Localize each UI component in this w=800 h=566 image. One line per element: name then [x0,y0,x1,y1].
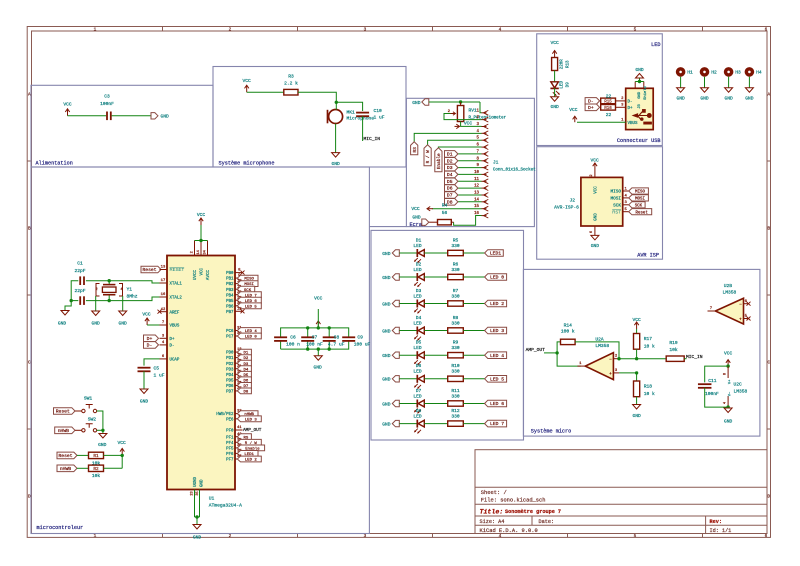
svg-text:22pF: 22pF [74,288,85,294]
svg-text:VBUS: VBUS [628,122,639,126]
svg-text:PB6: PB6 [226,305,234,309]
mcu pin 33 HWB/PE2 [235,413,243,415]
J1 pin 2 [482,119,487,121]
svg-text:Sheet: /: Sheet: / [481,490,507,496]
svg-text:R1: R1 [93,454,99,459]
global label D1 (mcu) [237,349,251,355]
svg-text:U1: U1 [209,496,215,502]
svg-text:J3: J3 [638,104,642,109]
usb shield pins [634,82,636,89]
wire [424,303,447,305]
svg-text:LED 5: LED 5 [490,376,504,382]
svg-text:C8: C8 [334,335,340,341]
svg-text:10 k: 10 k [644,391,655,397]
svg-text:PF7: PF7 [226,459,234,463]
svg-text:MOSI: MOSI [635,198,645,202]
LED D9 [551,82,559,88]
wire ucap [144,359,160,366]
svg-text:VCC: VCC [595,186,599,194]
resistor R7 330 [448,301,464,306]
svg-text:Conn_01x16_Socket: Conn_01x16_Socket [493,167,536,172]
power GND (usb led) [551,97,559,102]
svg-text:35: 35 [196,491,200,495]
svg-text:AREF: AREF [170,311,180,315]
svg-text:VCC: VCC [243,78,252,84]
junction [121,454,124,457]
svg-text:H2: H2 [711,70,717,76]
global label D- (mcu) [144,342,159,349]
power VCC (ecran pin15) [427,208,433,210]
hier label GND (alimentation) [151,113,158,119]
svg-text:100 uF: 100 uF [354,341,371,347]
global label D+ (mcu) [144,335,159,342]
wire [335,124,337,153]
wire [399,276,417,278]
svg-text:LED 3: LED 3 [490,328,504,334]
svg-text:Date:: Date: [539,519,555,525]
resistor R18 10k [636,373,638,381]
svg-text:C: C [767,361,770,366]
sheet Ecran [369,98,534,226]
power GND (r18) [633,405,641,410]
sheet LED array box [371,230,524,440]
wire [728,77,730,88]
svg-text:LED: LED [413,320,422,326]
svg-text:GND: GND [382,401,391,407]
svg-text:−: − [739,302,742,307]
global label nHWB (r2) [57,465,77,472]
svg-text:Système microphone: Système microphone [219,160,275,166]
svg-text:U2C: U2C [734,382,743,388]
wire [97,411,103,430]
LED D2 [416,273,418,281]
wire [463,252,484,254]
svg-text:PE6: PE6 [226,418,234,422]
svg-text:2.2 k: 2.2 k [284,81,298,87]
global label nHWB (mcu) [237,411,258,417]
junction [726,405,729,408]
svg-text:14: 14 [197,250,201,254]
capacitor C7 100nF [307,328,309,337]
mcu pin 41 PF0 [235,429,243,431]
svg-text:D8: D8 [416,408,422,414]
svg-text:MK1: MK1 [347,109,356,115]
power GND (crystal case 1) [92,311,100,316]
svg-text:GND: GND [331,161,340,167]
svg-text:D-: D- [147,343,153,349]
J2 pin 4 MOSI [623,197,629,199]
global label LED 6 [485,400,507,407]
J1 pin 3 [482,126,487,128]
svg-text:UCAP: UCAP [170,359,180,363]
power VCC (alimentation) [67,109,69,116]
svg-text:C11: C11 [708,378,717,384]
LED D7 [416,400,418,408]
wire [424,403,447,405]
wire [429,101,480,103]
svg-text:C1: C1 [77,261,83,267]
svg-text:PF6: PF6 [226,453,234,457]
J2 pin 3 SCK [623,204,629,206]
global label D- (usb) [585,98,600,105]
svg-text:C9: C9 [357,335,363,341]
mcu pin 13 RESET [160,269,168,271]
svg-text:D+: D+ [628,107,634,111]
wire [336,102,362,111]
wire [704,77,706,88]
svg-text:GND: GND [382,251,391,257]
global label D6 (mcu) [237,377,251,383]
op-amp U2A [585,353,613,380]
svg-text:Reset: Reset [56,409,70,415]
mcu pin 18 PD0 [235,351,243,353]
op-amp U2B [715,298,743,324]
resistor R4 56 [438,220,452,225]
svg-text:10k: 10k [92,473,101,479]
wire [680,77,682,88]
svg-text:Système micro: Système micro [531,428,571,434]
svg-text:PD2: PD2 [226,363,234,367]
svg-text:C10: C10 [374,108,383,114]
svg-text:SW2: SW2 [88,416,97,422]
svg-text:AMP_OUT: AMP_OUT [526,347,546,353]
wire [399,303,417,305]
wire [619,358,666,360]
wire (caps right to crystal) [86,280,109,282]
svg-text:Reset: Reset [142,267,156,273]
svg-text:D: D [767,495,770,500]
wire [362,116,364,141]
global label LED 5 (mcu) [237,303,261,309]
svg-text:VCC: VCC [724,351,733,357]
svg-text:2: 2 [190,251,194,253]
svg-text:GND: GND [632,413,641,419]
svg-text:D3: D3 [447,165,453,171]
mcu top power pins [194,241,196,256]
svg-text:D4: D4 [416,315,422,321]
mcu pin 36 PF7 [235,458,243,460]
bypass rail top wire [280,341,282,349]
svg-text:Enable: Enable [437,153,442,169]
svg-text:D6: D6 [447,186,453,192]
junction [108,279,111,282]
global label D4 (ecran) [458,173,482,175]
J1 pin 10 [482,173,487,175]
wire [399,423,417,425]
svg-text:U2A: U2A [595,336,604,342]
global label MOSI (mcu) [237,281,258,287]
svg-text:MOSI: MOSI [610,197,621,202]
usb connector J3 body [626,88,654,129]
svg-text:VCC: VCC [632,317,641,323]
svg-text:D+: D+ [147,336,153,342]
resistor R10 330 [448,376,464,381]
wire [121,455,123,468]
sheet Connecteur USB / LED [537,34,663,146]
global label LED 5 [485,376,507,383]
svg-text:GND: GND [550,104,559,110]
wire [544,352,557,354]
power GND (H4) [745,88,753,93]
global label Reset (avr isp) [629,209,652,215]
svg-text:10 k: 10 k [644,344,655,350]
svg-text:LED 2: LED 2 [245,459,258,463]
svg-text:R / W: R / W [426,150,431,164]
junction [101,429,104,432]
svg-text:R16: R16 [604,107,612,111]
global label D5 (ecran) [458,180,482,182]
svg-text:VCC: VCC [411,206,420,212]
global label LED 7 [485,420,507,427]
svg-text:3: 3 [364,27,367,32]
hier label GND (ecran bottom) [422,219,429,225]
svg-text:D5: D5 [447,179,453,185]
svg-text:D2: D2 [416,261,422,267]
svg-text:PD4: PD4 [226,374,234,378]
global label D8 (mcu) [237,388,251,394]
svg-text:PD7: PD7 [226,391,234,395]
power VCC (vbus) [146,318,148,325]
svg-text:microcontroleur: microcontroleur [37,525,84,531]
svg-text:J1: J1 [493,159,499,165]
wire pin4 to RS [414,133,481,141]
svg-text:GND: GND [382,421,391,427]
global label MISO (mcu) [237,275,258,281]
junction [635,357,638,360]
wire [463,303,484,305]
svg-text:nHWB: nHWB [58,428,69,434]
mcu pin 25 PD4 [235,373,243,375]
svg-text:V−: V− [729,391,733,396]
bypass rail bottom wire [281,348,319,350]
mcu pin 29 PB5 [235,299,243,301]
power GND (crystal left) [61,311,69,316]
svg-text:3: 3 [364,534,367,539]
svg-text:GND: GND [700,96,709,102]
svg-text:R5: R5 [453,237,459,243]
wire [463,378,484,380]
global label D6 (ecran) [458,187,482,189]
svg-text:LED: LED [413,267,422,273]
svg-text:R14: R14 [564,322,573,328]
wire [636,349,638,359]
power GND (u2c) [724,408,732,413]
global label D2 (mcu) [237,355,251,361]
svg-text:D-: D- [170,345,175,349]
resistor R14 100k [561,339,576,344]
wire [399,354,417,356]
J2 bottom pin [594,226,596,235]
svg-text:LED 0: LED 0 [490,275,504,281]
svg-text:GND: GND [140,399,149,405]
power GND (microphone) [332,153,340,158]
wire to R14 [557,342,560,353]
svg-text:2: 2 [229,27,232,32]
svg-text:C7: C7 [312,335,318,341]
svg-text:Sonomètre groupe 7: Sonomètre groupe 7 [505,509,561,515]
wire [97,429,103,431]
global label LED 2 (mcu) [237,456,261,462]
capacitor C9 100uF [342,336,355,338]
wire pin3 [619,372,637,374]
svg-text:H4: H4 [756,70,762,76]
mcu pin 37 PF6 [235,452,243,454]
wire [143,371,145,389]
svg-text:D8: D8 [447,199,453,205]
svg-text:GND: GND [193,534,202,540]
svg-text:PD1: PD1 [226,357,234,361]
svg-text:PB5: PB5 [226,300,234,304]
svg-text:PF5: PF5 [226,448,234,452]
power GND (usb shield) [636,74,644,79]
svg-text:KiCad E.D.A. 9.0.0: KiCad E.D.A. 9.0.0 [480,528,538,534]
svg-text:R9: R9 [453,340,459,346]
svg-text:J2: J2 [569,198,575,204]
wire [77,467,89,469]
wire [554,71,556,82]
svg-text:GND: GND [161,114,170,120]
svg-text:D+: D+ [170,338,175,342]
global label LED 0 [485,274,507,281]
mcu pin 19 PD1 [235,357,243,359]
svg-text:13: 13 [161,266,166,270]
svg-text:PB4: PB4 [226,294,234,298]
svg-text:GND: GND [724,96,733,102]
svg-text:PD6: PD6 [226,385,234,389]
crystal Y1 8MHz [108,281,110,285]
microphone MK1 [329,110,343,124]
svg-text:Y1: Y1 [127,287,133,293]
svg-text:GND: GND [591,243,600,249]
svg-text:LED: LED [413,293,422,299]
LED D6 [416,375,418,383]
svg-text:LED: LED [413,393,422,399]
wire [463,276,484,278]
svg-text:330: 330 [451,393,460,399]
svg-text:LED: LED [413,413,422,419]
resistor R3 2.2k [284,89,298,95]
svg-text:R18: R18 [644,384,653,390]
mcu pin 17 XTAL1 [160,282,168,284]
global label MISO (avr isp) [629,188,649,194]
mcu pin 26 PD6 [235,384,243,386]
svg-text:UVCC: UVCC [194,270,198,281]
svg-text:RESET: RESET [170,267,185,272]
svg-text:MIC_IN: MIC_IN [364,136,381,142]
global label D7 (mcu) [237,383,251,389]
resistor R15 22 [601,98,616,104]
power GND (mcu bottom) [193,525,201,530]
wire [399,403,417,405]
svg-text:GND: GND [92,321,101,327]
LED D1 [416,249,418,257]
svg-text:HWB/PE2: HWB/PE2 [216,412,234,417]
svg-text:22: 22 [606,94,612,100]
wire pin6 to Enable [438,146,481,149]
svg-text:D3: D3 [416,288,422,294]
global label D4 (mcu) [237,366,251,372]
svg-text:41: 41 [237,426,242,430]
global label Reset (mcu) [141,266,161,273]
wire crystal gnd left [95,296,97,311]
sheet Systeme micro [523,269,760,436]
J2 pin 1 MISO [623,190,629,192]
svg-text:GND: GND [595,213,599,221]
svg-text:R6: R6 [453,261,459,267]
svg-text:23: 23 [191,491,195,495]
svg-text:VCC: VCC [464,121,473,127]
wire [298,92,336,102]
sheet AVR ISP [537,147,663,260]
svg-text:4: 4 [723,402,727,404]
mcu pin 9 PB1 [235,277,243,279]
global label D+ (usb) [585,104,600,111]
svg-text:R4: R4 [442,203,448,209]
mcu pin 31 PC6 [235,330,243,332]
wire [554,88,556,97]
svg-text:2: 2 [229,534,232,539]
junction [638,80,641,83]
svg-text:PF4: PF4 [226,442,234,446]
svg-text:LED 6: LED 6 [490,401,504,407]
J1 pin 12 [482,187,487,189]
wire [424,423,447,425]
global label D8 (ecran) [458,201,482,203]
svg-text:1: 1 [94,534,97,539]
pin 1 VBUS [577,121,626,123]
wire [424,354,447,356]
svg-text:GND: GND [98,442,107,448]
LED D4 [416,327,418,335]
svg-text:D4: D4 [447,172,453,178]
svg-text:VBUS: VBUS [170,325,180,329]
wire pin5 to R/W [428,140,482,145]
svg-text:R12: R12 [451,408,460,414]
global label LED 4 [485,352,507,359]
svg-text:Rev:: Rev: [710,519,722,525]
wire [399,330,417,332]
capacitor C3 100nF [106,112,108,121]
power VCC (bypass) [317,321,319,328]
wire [112,115,151,117]
resistor R8 330 [448,328,464,333]
svg-text:VCC: VCC [550,40,559,46]
global label R / W (mcu) [237,439,261,445]
global label LED 7 (mcu) [237,292,261,298]
svg-text:MISO: MISO [610,190,621,195]
svg-text:100 k: 100 k [561,328,575,334]
svg-text:17: 17 [161,279,166,283]
svg-text:100nF: 100nF [100,101,114,107]
svg-text:LED 5: LED 5 [245,305,258,309]
svg-text:XTAL2: XTAL2 [170,297,183,301]
svg-text:GND: GND [382,353,391,359]
svg-text:MISO: MISO [635,191,645,195]
svg-text:VCC: VCC [314,295,323,301]
svg-text:VCC: VCC [569,107,578,113]
svg-text:AMP_OUT: AMP_OUT [243,428,262,433]
svg-text:PF1: PF1 [226,436,234,440]
svg-text:LM358: LM358 [723,290,737,296]
svg-text:16: 16 [161,293,166,297]
svg-text:6: 6 [765,27,768,32]
svg-text:SW1: SW1 [84,395,93,401]
resistor R9 330 [448,353,464,358]
svg-text:+: + [739,317,742,322]
sheet microcontroleur [31,167,369,534]
svg-text:220R: 220R [560,59,564,70]
svg-text:AVCC: AVCC [207,270,211,281]
